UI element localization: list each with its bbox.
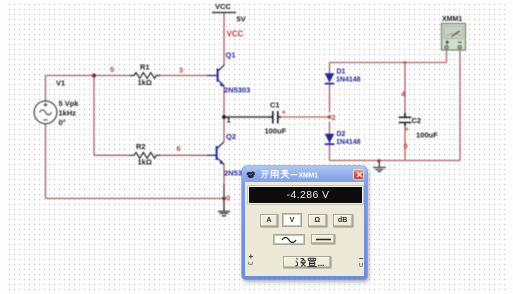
svg-text:C2: C2 [412,116,422,125]
svg-text:R1: R1 [140,63,150,72]
svg-text:0°: 0° [59,118,66,127]
svg-text:1N4148: 1N4148 [336,139,361,146]
svg-text:1kΩ: 1kΩ [138,158,152,167]
svg-text:VCC: VCC [227,30,244,39]
svg-text:XMM1: XMM1 [442,16,462,23]
svg-text:1: 1 [227,116,231,125]
svg-text:XMM1: XMM1 [299,172,319,179]
svg-text:1N4148: 1N4148 [336,77,361,84]
svg-text:5V: 5V [237,15,246,24]
svg-text:1kΩ: 1kΩ [138,78,152,87]
svg-text:C1: C1 [270,101,280,110]
svg-text:5: 5 [110,65,114,74]
svg-text:2N5303: 2N5303 [224,86,250,95]
svg-text:6: 6 [177,144,181,153]
svg-text:+: + [282,108,287,117]
svg-text:2: 2 [332,113,336,122]
svg-text:5 Vpk: 5 Vpk [59,99,80,108]
svg-text:VCC: VCC [215,2,231,11]
svg-text:D2: D2 [337,131,346,138]
svg-text:3: 3 [179,66,183,75]
svg-text:0: 0 [404,142,408,151]
svg-text:1kHz: 1kHz [59,109,77,118]
svg-text:100uF: 100uF [416,131,438,140]
svg-text:V1: V1 [56,79,65,88]
svg-text:D1: D1 [337,69,346,76]
svg-text:...: ... [318,258,325,267]
svg-text:0: 0 [226,194,230,203]
svg-text:Q2: Q2 [226,132,236,141]
svg-text:R2: R2 [136,142,146,151]
svg-text:Q1: Q1 [226,51,236,60]
svg-text:100uF: 100uF [265,127,287,136]
